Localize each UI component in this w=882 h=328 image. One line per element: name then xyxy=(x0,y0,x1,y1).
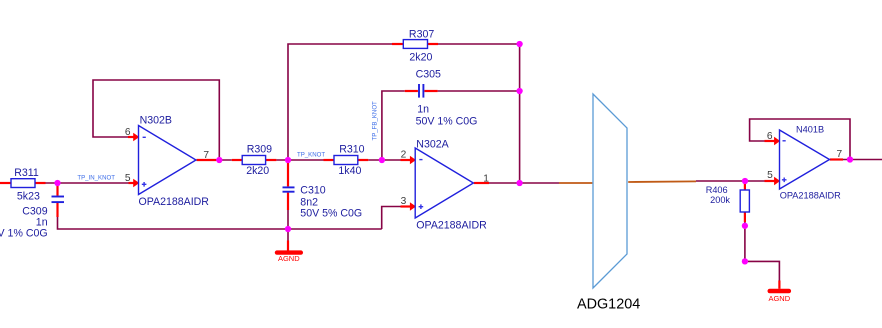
svg-text:N302B: N302B xyxy=(140,115,172,127)
svg-text:R311: R311 xyxy=(14,167,39,179)
svg-text:TP_IN_KNOT: TP_IN_KNOT xyxy=(77,175,115,182)
svg-text:2k20: 2k20 xyxy=(246,165,269,177)
svg-text:C310: C310 xyxy=(300,185,325,197)
svg-text:R310: R310 xyxy=(339,144,364,156)
svg-text:50V 1% C0G: 50V 1% C0G xyxy=(0,228,48,240)
svg-text:200k: 200k xyxy=(710,195,730,205)
svg-text:ADG1204: ADG1204 xyxy=(577,297,640,313)
svg-text:6: 6 xyxy=(767,131,773,142)
svg-text:6: 6 xyxy=(125,127,131,138)
svg-text:5k23: 5k23 xyxy=(17,191,40,203)
svg-text:AGND: AGND xyxy=(278,254,300,263)
svg-text:N401B: N401B xyxy=(796,125,824,135)
svg-text:R309: R309 xyxy=(247,144,272,156)
svg-text:5: 5 xyxy=(767,170,773,181)
svg-text:N302A: N302A xyxy=(416,139,449,151)
svg-text:OPA2188AIDR: OPA2188AIDR xyxy=(139,196,210,208)
svg-text:50V 5% C0G: 50V 5% C0G xyxy=(300,208,362,220)
svg-text:OPA2188AIDR: OPA2188AIDR xyxy=(780,191,841,201)
svg-text:R307: R307 xyxy=(409,29,434,41)
svg-text:7: 7 xyxy=(203,150,209,161)
svg-text:7: 7 xyxy=(837,149,843,160)
svg-text:50V 1% C0G: 50V 1% C0G xyxy=(416,116,478,128)
svg-text:1k40: 1k40 xyxy=(338,165,361,177)
svg-text:2k20: 2k20 xyxy=(409,52,432,64)
svg-text:AGND: AGND xyxy=(768,294,790,303)
svg-text:TP_KNOT: TP_KNOT xyxy=(297,151,325,158)
svg-text:1: 1 xyxy=(483,174,489,185)
svg-text:1n: 1n xyxy=(417,104,429,116)
svg-text:OPA2188AIDR: OPA2188AIDR xyxy=(416,220,487,232)
svg-text:3: 3 xyxy=(401,196,407,207)
svg-text:5: 5 xyxy=(125,173,131,184)
svg-text:2: 2 xyxy=(401,150,407,161)
svg-text:C305: C305 xyxy=(416,69,441,81)
svg-text:TP_FB_KNOT: TP_FB_KNOT xyxy=(371,101,378,141)
svg-text:R406: R406 xyxy=(706,185,728,195)
